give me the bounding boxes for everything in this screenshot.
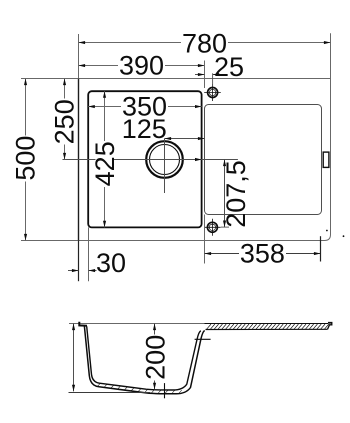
left rim profile [79,322,87,326]
dim 25 [195,74,205,76]
svg-text:250: 250 [50,99,80,144]
svg-text:125: 125 [122,114,167,144]
svg-text:25: 25 [214,52,244,82]
drainboard slab bottom [206,328,328,330]
ext line 390/358 upper [204,61,206,89]
sink outer rim (top view) [79,79,331,241]
bowl section outer wall [84,326,204,394]
slab right end lip [328,323,332,330]
drainboard slab top [205,323,329,325]
section bottom ext line [69,392,151,394]
dim 200 [154,324,156,390]
ext line 390/358 lower [204,215,206,264]
top reference line [69,323,332,325]
right wall tick [195,338,211,340]
slab hatching [207,324,329,329]
overflow slot [323,152,329,167]
svg-text:207,5: 207,5 [221,160,251,228]
bowl section inner wall [87,326,201,390]
svg-text:390: 390 [119,51,164,81]
dim 350 [88,106,201,108]
dim 358 [205,253,321,255]
drain centerline vertical [164,139,166,194]
dim 780 [79,33,331,78]
dim 207,5 [224,160,226,228]
dim 500 [21,79,79,241]
drain circle [146,141,183,178]
dim 125 [165,138,205,140]
dim 30 [78,241,80,282]
stray dots [326,230,328,232]
drainboard outline [205,105,322,215]
faucet centerline ext [212,73,214,86]
faucet hole top [204,84,221,101]
svg-text:425: 425 [90,141,120,186]
bowl bottom hatching [97,383,182,393]
sink left edge (darker) [78,79,80,241]
svg-text:358: 358 [240,239,285,269]
section left dim line [73,324,75,392]
svg-text:500: 500 [11,136,41,181]
svg-text:30: 30 [96,248,126,278]
drain centerline horizontal [63,159,238,161]
bowl outline [88,91,201,227]
dim 250 [64,79,66,160]
drain tick (section) [164,383,166,398]
dim 425 [104,91,106,227]
svg-text:200: 200 [140,335,170,380]
faucet hole bottom [204,219,221,236]
arrow at bowl right edge on centerline [195,158,202,161]
dim 390 [79,65,205,67]
